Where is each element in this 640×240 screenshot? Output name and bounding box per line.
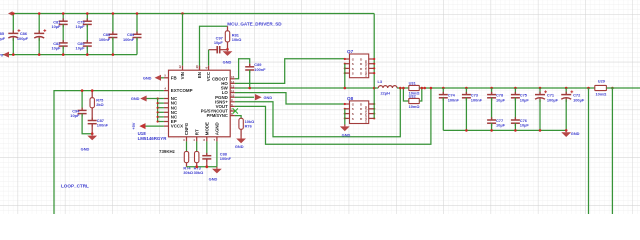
capacitor C76: [514, 117, 516, 120]
svg-text:10µF: 10µF: [214, 40, 224, 45]
wire CBOOT net: [235, 59, 250, 79]
svg-text:VIN: VIN: [180, 72, 185, 79]
capacitor C80: [86, 24, 88, 43]
wire bottom input rail: [3, 54, 138, 56]
capacitor C74: [442, 88, 444, 95]
wire NC-EP gnd bus: [157, 99, 159, 122]
wire U29 sense right: [611, 88, 613, 215]
svg-text:100µF: 100µF: [17, 36, 29, 41]
U18 pin EXTCOMP: [164, 90, 169, 92]
wire U29 sense left: [588, 88, 590, 215]
svg-text:10µF: 10µF: [496, 97, 506, 102]
svg-text:MODE: MODE: [205, 122, 210, 135]
svg-text:S: S: [352, 67, 354, 71]
U18 pin VOUT: [230, 105, 235, 107]
shunt resistor U32 parallel branch: [403, 88, 408, 101]
svg-text:FB: FB: [171, 75, 177, 80]
wire EXTCOMP / LOOP_CTRL net: [54, 91, 164, 215]
svg-text:4V0: 4V0: [0, 52, 3, 57]
wire Q7 source bus to SW: [344, 64, 346, 88]
U18 pin FB: [164, 77, 169, 79]
ground gnd FB: [155, 75, 161, 81]
U18 pin NC2: [164, 102, 169, 104]
svg-text:VCCX: VCCX: [171, 124, 183, 129]
svg-text:+5V: +5V: [131, 122, 136, 129]
junction dots input rails: [12, 12, 15, 15]
U18 pin LO: [230, 92, 235, 94]
svg-text:100nF: 100nF: [448, 97, 460, 102]
wire ISNS+ sense net: [235, 88, 400, 137]
capacitor C75: [514, 88, 516, 95]
capacitor C84: [136, 14, 138, 35]
capacitor C73: [465, 88, 467, 95]
capacitor C81: [62, 14, 64, 22]
U18 pin CNFG: [186, 137, 188, 142]
U18 top pin EN: [199, 66, 201, 71]
svg-text:PFM/SYNC: PFM/SYNC: [207, 113, 228, 118]
svg-text:GND: GND: [209, 176, 218, 181]
resistor R75: [91, 91, 93, 98]
capacitor C79: [86, 14, 88, 22]
net port +5V: [146, 125, 164, 127]
svg-text:14: 14: [231, 80, 235, 84]
svg-text:12: 12: [178, 65, 182, 69]
svg-text:10mΩ: 10mΩ: [596, 91, 607, 96]
svg-text:739KHz: 739KHz: [159, 149, 176, 154]
shunt resistor U31: [409, 85, 420, 90]
svg-text:10pF: 10pF: [70, 113, 80, 118]
U18 pin AGND: [216, 137, 218, 142]
svg-text:AGND: AGND: [215, 122, 220, 135]
wire HO net: [235, 59, 345, 84]
ground gnd R76: [240, 137, 242, 139]
svg-text:100nF: 100nF: [471, 97, 483, 102]
svg-text:S: S: [352, 112, 354, 116]
ground gnd R81: [227, 49, 229, 51]
svg-text:CNFG: CNFG: [184, 122, 189, 135]
svg-text:100nF: 100nF: [220, 156, 232, 161]
svg-text:100µF: 100µF: [0, 36, 6, 41]
capacitor C87: [91, 108, 93, 121]
svg-text:13: 13: [231, 84, 235, 88]
shunt resistor U29: [595, 85, 607, 90]
svg-text:100nF: 100nF: [254, 67, 266, 72]
svg-text:10mΩ: 10mΩ: [409, 104, 420, 109]
svg-text:100nF: 100nF: [97, 123, 109, 128]
wire L3 to shunts: [397, 87, 409, 89]
svg-text:22µH: 22µH: [381, 91, 391, 96]
svg-text:EN: EN: [197, 72, 202, 78]
junction dots output rail caps: [442, 87, 445, 90]
svg-text:CSD17573Q5B: CSD17573Q5B: [365, 106, 368, 123]
wire EN net: [200, 26, 228, 70]
svg-text:30kΩ: 30kΩ: [183, 170, 193, 175]
svg-text:10: 10: [231, 94, 235, 98]
resistor R76: [235, 116, 241, 119]
svg-text:10µF: 10µF: [76, 46, 86, 51]
svg-text:GND: GND: [143, 75, 152, 80]
svg-text:S: S: [352, 107, 354, 111]
U18 pin NC3: [164, 107, 169, 109]
svg-text:GND: GND: [235, 144, 244, 149]
U18 pin PGND: [230, 96, 235, 98]
U18 pin NC1: [164, 98, 169, 100]
U18 pin MODE: [206, 137, 208, 142]
svg-text:S: S: [352, 62, 354, 66]
svg-text:100nF: 100nF: [123, 37, 135, 42]
svg-text:R76: R76: [245, 123, 253, 128]
resistor R74: [186, 141, 188, 151]
U18 pin PFM/SYNC: [230, 115, 235, 117]
svg-text:10kΩ: 10kΩ: [232, 37, 242, 42]
wire SW net: [235, 87, 375, 89]
U18 pin VCCX: [164, 125, 169, 127]
wire Q8 drain bus: [373, 88, 375, 118]
svg-text:10µF: 10µF: [51, 24, 61, 29]
svg-text:11: 11: [231, 89, 234, 93]
svg-text:10µF: 10µF: [520, 97, 530, 102]
svg-text:100nF: 100nF: [99, 37, 111, 42]
ground gnd output bus: [565, 129, 568, 132]
svg-text:100µF: 100µF: [547, 97, 559, 102]
op-amp U18 LM5146RGYR body: [169, 70, 231, 137]
capacitor C89: [249, 64, 251, 67]
inductor L3: [374, 87, 378, 89]
svg-text:S: S: [352, 72, 354, 76]
ground gnd NC bus: [147, 98, 158, 100]
svg-text:10µF: 10µF: [496, 123, 506, 128]
capacitor C88: [206, 141, 208, 155]
svg-text:U29: U29: [598, 78, 606, 83]
svg-text:19: 19: [195, 65, 199, 69]
wire VIN rail drop to Q7: [373, 14, 375, 89]
net port input-gnd arrow: [3, 52, 9, 58]
svg-text:VCC: VCC: [206, 71, 211, 81]
capacitor C78: [491, 88, 493, 95]
U18 top pin VIN: [182, 14, 184, 66]
svg-text:10µF: 10µF: [51, 46, 61, 51]
svg-text:U31: U31: [409, 80, 417, 85]
svg-text:GND: GND: [264, 95, 273, 100]
svg-text:S: S: [352, 117, 354, 121]
capacitor C85: [12, 14, 14, 34]
svg-text:RT: RT: [194, 129, 199, 135]
U18 pin RT: [196, 137, 198, 142]
U18 pin SW: [230, 87, 235, 89]
capacitor C71: [539, 88, 541, 95]
wire LO net: [235, 93, 345, 104]
svg-text:GND: GND: [223, 60, 232, 65]
svg-text:Q7: Q7: [347, 49, 354, 54]
capacitor C83: [112, 14, 114, 35]
svg-text:Q8: Q8: [347, 96, 354, 101]
resistor R81: [227, 26, 229, 31]
net port VIN arrow: [8, 11, 13, 15]
U18 pin PG/SYNCOUT: [230, 110, 235, 112]
U18 top pin VCC: [208, 66, 210, 71]
capacitor C82: [62, 24, 64, 43]
svg-text:15: 15: [231, 75, 235, 79]
svg-text:GND: GND: [131, 96, 140, 101]
svg-text:GND: GND: [571, 131, 580, 136]
svg-text:GND: GND: [81, 147, 90, 152]
capacitor C86: [38, 14, 40, 34]
svg-text:2kΩ: 2kΩ: [96, 102, 103, 107]
wire VOUT sense net: [235, 88, 431, 144]
ground gnd comp: [91, 134, 93, 136]
ground gnd Q8: [344, 125, 346, 127]
capacitor C77: [491, 117, 493, 120]
junction node comp gnd: [91, 132, 94, 135]
junction node R81 C97 gnd: [226, 48, 229, 51]
wire VCC net: [208, 50, 210, 66]
capacitor C97: [209, 49, 218, 51]
ground gnd PGND: [235, 96, 254, 98]
U18 pin EP: [164, 121, 169, 123]
U18 pin CBOOT: [230, 78, 235, 80]
svg-text:100µF: 100µF: [573, 97, 585, 102]
capacitor C72: [565, 88, 567, 95]
svg-text:LM5146RGYR: LM5146RGYR: [138, 136, 168, 141]
wire output gnd bus: [443, 129, 566, 131]
no-connect X PG/SYNCOUT: [233, 108, 238, 113]
svg-text:10µF: 10µF: [520, 123, 530, 128]
U18 pin NC4: [164, 111, 169, 113]
ground gnd AGND: [216, 167, 218, 169]
capacitor C94: [81, 91, 83, 111]
U18 pin NC5: [164, 116, 169, 118]
wire top input rail: [12, 13, 374, 15]
wire output rail: [419, 87, 595, 89]
U18 pin ISNS+: [230, 101, 235, 103]
svg-text:LOOP_CTRL: LOOP_CTRL: [61, 183, 89, 188]
wire Q8 source bus to gnd: [344, 109, 346, 125]
wire analog gnd bus: [187, 166, 217, 168]
svg-text:GND: GND: [342, 133, 351, 138]
svg-text:EXTCOMP: EXTCOMP: [171, 88, 193, 93]
svg-text:CSD17573Q5B: CSD17573Q5B: [365, 60, 368, 77]
svg-text:30kΩ: 30kΩ: [194, 170, 204, 175]
U18 pin HO: [230, 82, 235, 84]
svg-text:10µF: 10µF: [76, 24, 86, 29]
resistor R73: [196, 141, 198, 151]
svg-text:MCU_GATE_DRIVER_SD: MCU_GATE_DRIVER_SD: [227, 22, 282, 27]
wire rail to right edge: [606, 87, 640, 89]
svg-text:U32: U32: [409, 94, 417, 99]
